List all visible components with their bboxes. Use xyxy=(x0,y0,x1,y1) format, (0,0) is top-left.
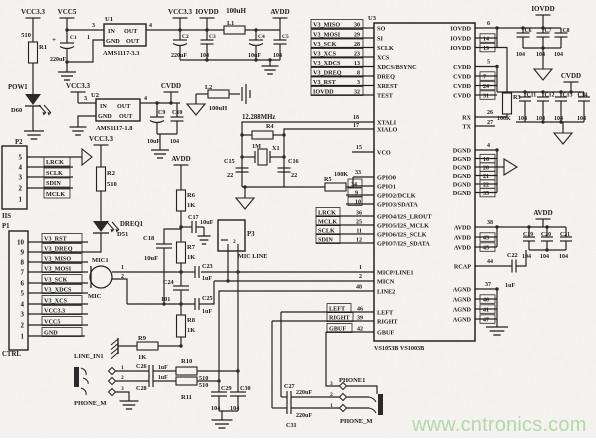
wire R2 to D51 xyxy=(100,191,102,221)
wire RCAP pin 44 to C22 xyxy=(475,265,512,267)
node C4 xyxy=(254,28,257,31)
wire MIC pin 1 xyxy=(112,271,181,273)
wire P1 pin 2 net VCC5 xyxy=(28,324,88,326)
wire AGND pin 37 xyxy=(475,288,497,290)
resistor R3 100K xyxy=(503,93,512,114)
net label SCLK xyxy=(44,168,70,177)
wire net V3_DREQ to U3 pin 8 xyxy=(311,75,374,77)
wire AGND junction xyxy=(496,289,498,327)
wire XTALI net pin 18 xyxy=(242,122,374,187)
wire MCLK from P2 pin 2 xyxy=(27,187,73,189)
capacitor C12 104 xyxy=(541,90,544,93)
wire P1 pin 4 net V3_XCS xyxy=(28,303,88,305)
wire net V3_RST to U3 pin 3 xyxy=(311,85,374,87)
node VCC5 xyxy=(65,28,68,31)
wire P1 pin 8 net V3_MISO xyxy=(28,261,88,263)
wire TX pin 27 xyxy=(475,125,495,127)
resistor R4 1M xyxy=(242,134,252,136)
wire C19-C21 bottom rail xyxy=(529,249,566,251)
LED D60 xyxy=(25,94,41,105)
wire crystal bottom rail xyxy=(242,186,325,188)
wire XIALO net pin 17 xyxy=(284,129,374,187)
wire RIGHT pin 39 xyxy=(272,320,374,322)
capacitor C9 10uF xyxy=(155,101,158,104)
wire net V3_SCK to U3 pin 28 xyxy=(311,47,374,49)
ground of IOVDD caps xyxy=(542,48,544,69)
wire CVDD pin 5 xyxy=(475,66,497,68)
wire P1 pin 6 net V3_SCK xyxy=(28,282,88,284)
wire line in pin1 to C26 xyxy=(116,370,150,372)
wire LINE2 pin 48 xyxy=(219,291,374,392)
ground of crystal circuit xyxy=(244,187,246,198)
wire P1 pin 5 net V3_XDCS xyxy=(28,292,88,294)
wire CVDD pins junction to rail xyxy=(496,67,498,93)
capacitor C23 1uF xyxy=(181,271,195,273)
capacitor C20 104 xyxy=(545,225,548,228)
capacitor C1 220uF xyxy=(66,30,68,43)
net label SDIN xyxy=(44,178,70,187)
wire line in pin2 to C28 xyxy=(116,380,150,382)
wire CVDD rail xyxy=(497,91,584,93)
wire bottom rail of input filter xyxy=(180,59,280,61)
resistor R2 510 xyxy=(97,167,106,191)
wire VCC5 to U1 IN pin 3 xyxy=(67,29,104,31)
ground of CVDD caps xyxy=(562,122,564,133)
wire P1 pin 10 net V3_RST xyxy=(28,241,88,243)
capacitor C7 104 xyxy=(541,26,544,29)
wire VCC3.3 to U2 IN pin 3 xyxy=(78,102,96,104)
wire R7 to MIC node xyxy=(180,263,182,286)
capacitor C6 104 xyxy=(521,26,524,29)
capacitor C17 10uF xyxy=(181,226,192,228)
wire C31 to PHONE1 pin 1 xyxy=(291,407,340,409)
wire C6-C8 bottom rail xyxy=(523,47,561,49)
capacitor C29 104 xyxy=(211,391,227,393)
wire line in pin3 to ground xyxy=(116,392,130,401)
regulator U2 AMS1117-1.8 xyxy=(96,99,140,121)
wire R3 to RX pin 26 xyxy=(506,114,508,117)
wire U2 GND pin to ground xyxy=(78,116,96,127)
ground of line jack xyxy=(120,400,139,402)
capacitor C11 104 xyxy=(523,90,526,93)
wire MICN pin 2 xyxy=(214,280,374,282)
earth ground near R9 xyxy=(117,338,119,354)
ground under C9 C10 xyxy=(159,134,161,150)
wire C11-C14 bottom rail xyxy=(516,121,584,123)
capacitor C15 22pF xyxy=(236,167,249,169)
wire MICP/LINE1 pin 1 xyxy=(201,271,374,273)
wire L2 right xyxy=(229,93,240,95)
node C2 xyxy=(178,28,181,31)
wire RIGHT riser to C31 xyxy=(271,321,273,408)
wire D51 to V3_DREQ row xyxy=(28,233,101,252)
wire IOVDD pins junction xyxy=(496,28,498,48)
wire R10 to LEFT riser xyxy=(197,370,238,372)
pin 41 xyxy=(475,308,497,310)
IIS port triangle xyxy=(82,149,92,165)
pin 7 xyxy=(475,75,497,77)
wire net V3_XDCS to U3 pin 13 xyxy=(311,66,374,68)
wire net V3_MISO to U3 pin 30 xyxy=(311,27,374,29)
microphone MIC1 xyxy=(90,266,112,288)
wire P1 pin 7 net V3_MOSI xyxy=(28,271,88,273)
capacitor C31 220uF xyxy=(272,407,287,409)
regulator U1 AMS1117-3.3 xyxy=(104,24,146,46)
pin 24 xyxy=(475,85,497,87)
capacitor C10 104 xyxy=(176,103,178,117)
wire R5 to GPIO0 GPIO1 pins 33 34 xyxy=(346,186,353,188)
ground of input filter xyxy=(269,60,271,66)
wire C27 to PHONE1 pin 2 xyxy=(291,396,340,398)
pin 22 xyxy=(475,183,497,185)
wire R8 to R9 xyxy=(180,337,182,346)
capacitor C4 10uF xyxy=(255,30,257,40)
capacitor C14 104 xyxy=(583,92,585,97)
wire R11 to C29 riser xyxy=(197,380,219,382)
wire GND row xyxy=(28,335,85,337)
wire LEFT riser to C27 xyxy=(280,312,282,397)
wire P3 pin to MICN xyxy=(227,244,229,281)
wire SCLK from P2 pin 4 xyxy=(27,166,73,168)
capacitor C26 1uF xyxy=(148,365,150,377)
resistor R10 510 xyxy=(176,367,197,375)
resistor R6 1K xyxy=(177,190,186,211)
pin 20 xyxy=(475,166,497,168)
capacitor C28 1uF xyxy=(148,375,150,387)
capacitor C25 1uF xyxy=(194,298,196,310)
wire net V3_XCS to U3 pin 23 xyxy=(311,56,374,58)
crystal X1 xyxy=(242,156,255,158)
wire AVDD pin 38 xyxy=(475,226,566,228)
resistor R5 100K xyxy=(325,183,346,191)
wire D60 to ground xyxy=(32,106,34,131)
ground under C1 xyxy=(58,71,76,73)
ground under U2 xyxy=(70,126,87,128)
wire P3 pin to MICP and R10 and C30 xyxy=(237,244,239,392)
capacitor C2 220uF xyxy=(179,30,181,40)
ground under C29 C30 xyxy=(221,411,223,420)
ground after C17 xyxy=(196,226,204,228)
wire net V3_MOSI to U3 pin 29 xyxy=(311,37,374,39)
capacitor C8 104 xyxy=(560,28,562,33)
pin 40 xyxy=(475,298,497,300)
capacitor C19 104 xyxy=(527,225,530,228)
IC U3 VS1053B body xyxy=(374,23,475,341)
capacitor C22 1uF xyxy=(511,260,513,273)
wire C28 to R11 xyxy=(153,380,176,382)
resistor R11 510 xyxy=(176,377,197,385)
capacitor C18 10uF xyxy=(164,229,181,244)
connector P2 IIS xyxy=(2,146,27,209)
ground AGND xyxy=(486,326,508,328)
wire PHONE1 ring contacts xyxy=(347,396,370,398)
wire LRCK from P2 pin 5 xyxy=(27,156,82,158)
wire PHONE1 tip to sleeve xyxy=(347,386,378,394)
pin 47 xyxy=(475,318,497,320)
wire GBUF pin 42 xyxy=(326,331,374,333)
resistor R7 1K xyxy=(177,242,186,263)
resistor R9 1K xyxy=(137,342,158,350)
pin 19 xyxy=(475,47,497,49)
capacitor at L2 right xyxy=(241,87,243,101)
pin 21 xyxy=(475,175,497,177)
wire C26 to R10 xyxy=(153,370,176,372)
node C3 xyxy=(205,28,208,31)
wire C25 to MICN xyxy=(199,281,214,304)
wire R6 to node xyxy=(180,211,182,242)
pin 31 xyxy=(475,94,497,96)
wire to R3 top xyxy=(497,48,507,94)
connector P3 MIC LINE xyxy=(218,220,245,251)
wire SDIN from P2 pin 3 xyxy=(27,176,73,178)
capacitor C27 220uF xyxy=(281,396,287,398)
digital ground symbol xyxy=(497,166,504,168)
wire net IOVDD to U3 pin 32 xyxy=(311,94,374,96)
capacitor C3 104 xyxy=(206,30,208,40)
wire DGND junction xyxy=(496,150,498,193)
pin 35 xyxy=(475,192,497,194)
capacitor C24 101 xyxy=(173,285,189,287)
net label MCLK xyxy=(44,189,70,198)
capacitor C30 104 xyxy=(230,391,246,393)
resistor R8 1K xyxy=(180,304,182,315)
wire C22 to AGND rail xyxy=(516,250,526,266)
wire C29 C30 bottom rail xyxy=(219,410,238,412)
LED D51 DREQ indicator xyxy=(93,221,109,232)
wire GBUF riser to PHONE1 pin 3 xyxy=(326,332,340,386)
wire AVDD junction xyxy=(496,227,498,247)
capacitor C5 104 xyxy=(279,30,281,40)
wire IOVDD pin 6 xyxy=(475,27,561,29)
pin 16 xyxy=(475,158,497,160)
capacitor C21 104 xyxy=(565,227,567,237)
wire MIC pin 2 xyxy=(112,279,127,304)
wire P1 pin 3 net VCC3.3 xyxy=(28,313,88,315)
capacitor C16 22pF xyxy=(278,167,291,169)
ground under D60 xyxy=(24,130,44,132)
wire R1 to D60 xyxy=(32,63,34,94)
resistor R1 xyxy=(29,42,38,63)
pin 45 xyxy=(475,246,497,248)
wire VCO pin 15 xyxy=(352,151,374,153)
pin 43 xyxy=(475,236,497,238)
capacitor C13 104 xyxy=(559,90,562,93)
pin 14 xyxy=(475,37,497,39)
wire LEFT pin 46 xyxy=(281,311,374,313)
wire C9 C10 bottom rail xyxy=(157,133,177,135)
node C1 bottom xyxy=(65,60,68,63)
net label LRCK xyxy=(44,157,70,166)
wire U1 GND pin 1 xyxy=(67,40,104,62)
wire DGND pin 4 xyxy=(475,149,497,151)
wire L1 to AVDD rail xyxy=(245,29,280,31)
wire mic bias row xyxy=(127,303,195,305)
